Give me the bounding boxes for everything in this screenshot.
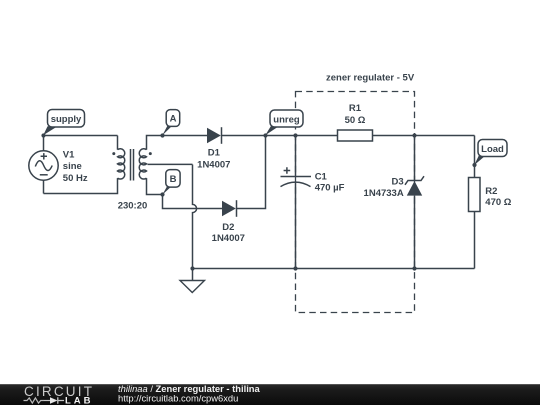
wire D2 cathode riser to unreg node [237,136,266,209]
svg-text:1N4007: 1N4007 [212,233,245,244]
wire D1 cathode to R1 through unreg and C1 nodes [222,135,338,137]
flag unreg [265,110,303,135]
wire D3 bottom lead [414,196,416,269]
junction node D3 top [412,133,416,137]
wire V1 top lead [43,136,45,151]
label D1 1N4007 [197,147,230,170]
wire V1 bottom lead [43,180,45,193]
svg-text:supply: supply [51,114,82,125]
label R1 50ohm [345,103,366,126]
footer logo diode glyph [44,397,64,404]
wire R2 top lead [474,136,476,178]
voltage source V1 [29,151,58,180]
ground symbol [180,269,205,293]
label V1 value [63,150,88,184]
junction node supply [41,133,45,137]
svg-text:V1: V1 [63,150,75,161]
svg-text:sine: sine [63,161,82,172]
junction node C1 top [293,133,297,137]
transformer primary coil [118,149,125,179]
svg-text:Load: Load [481,144,504,155]
junction node D3 bottom [412,266,416,270]
footer bar [0,384,540,405]
svg-text:B: B [170,174,177,185]
svg-text:LAB: LAB [65,395,94,405]
junction node A [160,133,164,137]
label C1 470 uF [315,171,345,193]
wire center tap horizontal [148,163,193,165]
diode D2 [222,200,237,217]
capacitor C1 [281,167,312,186]
svg-text:470 Ω: 470 Ω [485,197,511,208]
wire R1 right to R2 branch corner [373,135,475,137]
svg-text:R2: R2 [485,186,497,197]
wire secondary top lead to node A and D1 [147,136,208,150]
flag supply [43,110,84,136]
svg-text:C1: C1 [315,171,328,182]
wire D3 top lead [414,136,416,181]
zener diode D3 [405,176,424,195]
wire primary spine top [117,136,119,150]
junction node Load [472,163,476,167]
wire node B down to D2 row [163,195,223,209]
resistor R2 [469,178,481,212]
transformer T1 core [131,149,134,181]
transformer secondary polarity dot [149,152,152,155]
wire R2 bottom lead [474,212,476,269]
flag B [162,170,180,195]
wire secondary bottom lead to node B [147,178,163,194]
junction node unreg [263,133,267,137]
flag Load [474,140,507,166]
svg-text:R1: R1 [349,103,362,114]
junction node ground [190,266,194,270]
svg-text:zener regulater - 5V: zener regulater - 5V [326,73,415,84]
wire center tap vertical with hop over D2 wire [193,165,197,269]
wire primary bottom lead [44,178,118,193]
wire C1 bottom lead [295,183,297,269]
footer logo resistor glyph [24,398,45,403]
svg-text:D3: D3 [392,177,404,188]
svg-text:http://circuitlab.com/cpw6xdu: http://circuitlab.com/cpw6xdu [118,393,238,404]
wire top primary: supply node to transformer [44,135,118,137]
wire C1 top lead [295,136,297,177]
junction node B [160,192,164,196]
junction node C1 bottom [293,266,297,270]
transformer secondary coil [139,149,146,179]
svg-text:50 Ω: 50 Ω [345,115,366,126]
label R2 470ohm [485,186,511,208]
diode D1 [207,127,222,144]
svg-text:50 Hz: 50 Hz [63,173,88,184]
dashed box zener regulator region [296,92,415,313]
resistor R1 [338,130,373,141]
svg-text:470 µF: 470 µF [315,182,345,193]
label D3 1N4733A [364,177,404,199]
svg-text:D2: D2 [222,222,234,233]
svg-text:1N4733A: 1N4733A [364,188,404,199]
svg-text:1N4007: 1N4007 [197,159,230,170]
transformer primary polarity dot [112,152,115,155]
flag A [162,110,179,136]
svg-text:unreg: unreg [273,114,300,125]
label D2 1N4007 [212,222,245,244]
svg-text:230:20: 230:20 [118,201,148,212]
wire bottom rail [193,268,475,270]
svg-text:A: A [170,113,177,124]
svg-text:D1: D1 [208,147,221,158]
